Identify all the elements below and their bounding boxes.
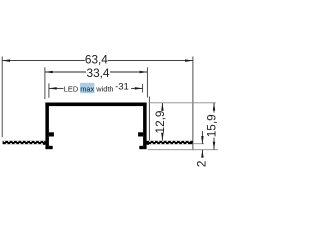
dimension line LED width right arrow bbox=[131, 87, 143, 89]
svg-text:2: 2 bbox=[195, 161, 209, 168]
flange bottom reference line bbox=[193, 143, 205, 145]
extension line left (33,4) bbox=[44, 67, 46, 99]
arrow 33,4 left bbox=[45, 71, 53, 74]
left flange serrated band bbox=[3, 141, 46, 144]
arrow 12,9 bottom bbox=[161, 133, 164, 141]
profile left inner nub bbox=[49, 132, 54, 136]
extension line right (33,4) long bbox=[146, 67, 148, 97]
arrow 15,9 bottom bbox=[213, 142, 216, 150]
arrow 2 upper (pointing down) bbox=[201, 136, 204, 144]
profile top plate bbox=[45, 103, 146, 107]
bottom reference line bbox=[148, 149, 218, 151]
svg-text:-31: -31 bbox=[115, 82, 129, 93]
svg-text:33,4: 33,4 bbox=[87, 66, 110, 80]
arrow 15,9 top bbox=[213, 103, 216, 111]
extension line left (LED width) bbox=[48, 83, 50, 98]
highlight max bbox=[80, 83, 94, 93]
arrow 12,9 top bbox=[161, 103, 164, 111]
dimension 15,9 line bbox=[213, 103, 215, 113]
arrow 63,4 right bbox=[185, 59, 193, 62]
arrow 33,4 right bbox=[140, 71, 148, 74]
extension line right (LED width) bbox=[142, 84, 144, 93]
top reference line right bbox=[148, 102, 215, 104]
svg-text:LED max width: LED max width bbox=[64, 85, 114, 94]
svg-text:63,4: 63,4 bbox=[85, 53, 108, 67]
profile left wall bbox=[45, 103, 49, 150]
svg-text:12,9: 12,9 bbox=[153, 111, 167, 134]
profile left foot bbox=[49, 146, 53, 149]
profile right foot bbox=[139, 146, 143, 149]
dimension 2 lower line bbox=[201, 150, 203, 158]
dimension line 63,4 bbox=[2, 60, 85, 62]
profile right inner nub bbox=[138, 132, 143, 136]
profile right wall bbox=[143, 103, 147, 150]
dimension line LED width left arrow bbox=[49, 87, 64, 89]
profile left outer tooth bbox=[43, 142, 45, 145]
dimension line 33,4 bbox=[45, 71, 86, 73]
arrow 63,4 left bbox=[2, 59, 10, 62]
svg-text:15,9: 15,9 bbox=[204, 114, 218, 137]
dimension 12,9 line bbox=[161, 103, 163, 111]
extension line left (63,4) bbox=[1, 57, 3, 138]
right flange serrated band bbox=[147, 141, 193, 144]
extension line right (63,4) bbox=[192, 57, 194, 151]
arrow 2 lower (pointing up) bbox=[201, 150, 204, 158]
profile right outer tooth bbox=[147, 142, 149, 145]
dimension 2 upper line bbox=[201, 131, 203, 144]
